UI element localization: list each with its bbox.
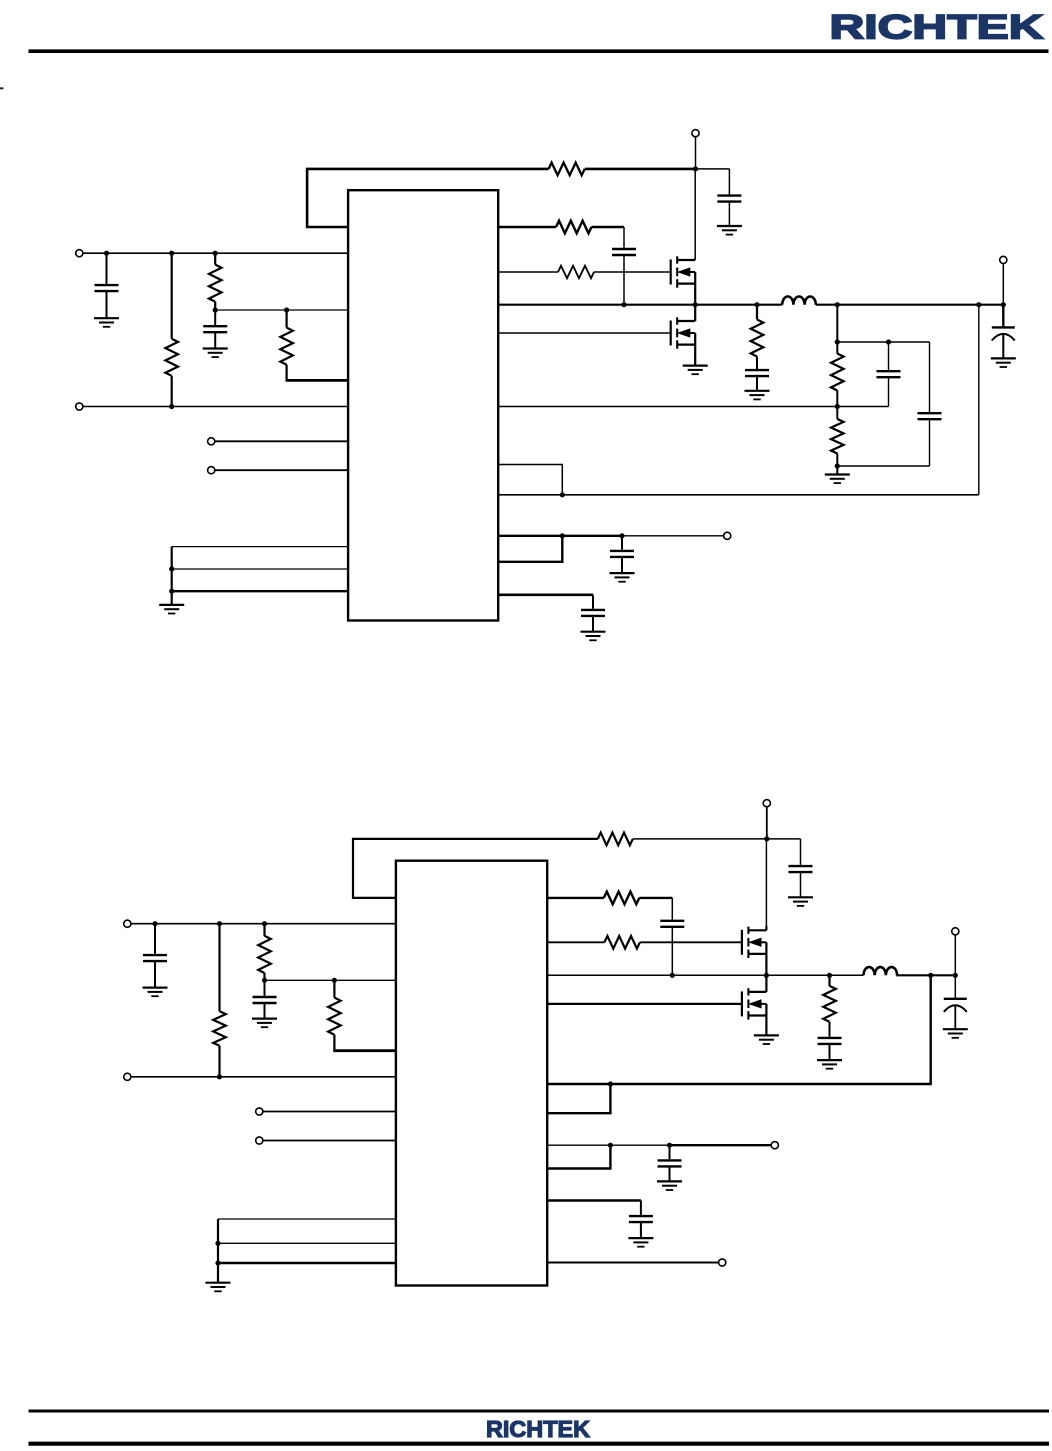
wire LGATE2 pin bbox=[547, 1003, 741, 1005]
capacitor C17 bbox=[658, 1145, 682, 1181]
terminal VCC2 out bbox=[771, 1142, 778, 1149]
node VIN2-R11 bbox=[262, 921, 267, 926]
wire LDO2 pin (thick) bbox=[547, 1201, 641, 1215]
wire node-R2 to pin bbox=[215, 309, 348, 311]
node VOUT1 bbox=[1001, 302, 1006, 307]
capacitor C3 bbox=[717, 196, 741, 226]
node boot2-SW bbox=[670, 973, 675, 978]
wire SW rail bbox=[498, 304, 1003, 306]
node SW-Q1 bbox=[693, 302, 698, 307]
ground C1 bbox=[94, 318, 119, 327]
wire VOS2 loop bbox=[547, 1084, 610, 1113]
header rule bbox=[29, 49, 1049, 53]
node VIN1-C bbox=[104, 251, 109, 256]
ground C15 bbox=[817, 1060, 842, 1069]
wire node-R11 to pin bbox=[265, 979, 396, 981]
op-amp U1 (controller IC) bbox=[348, 190, 498, 620]
node gnd b bbox=[169, 566, 174, 571]
wire VCC5 down bbox=[695, 137, 697, 169]
resistor R4 (top) bbox=[549, 163, 585, 176]
node FB bbox=[835, 404, 840, 409]
capacitor C1 (input) bbox=[95, 253, 119, 318]
ground C18 bbox=[628, 1238, 653, 1247]
terminal SS2 bbox=[719, 1259, 726, 1266]
resistor R3 bbox=[280, 310, 293, 380]
wire BOOT2 pin bbox=[547, 897, 604, 899]
resistor R1 bbox=[165, 253, 178, 406]
wire SS pin bbox=[547, 1262, 718, 1264]
capacitor C16 (output, polarized) bbox=[944, 975, 967, 1029]
terminal PG2 bbox=[256, 1137, 263, 1144]
capacitor C8 (output, polarized) bbox=[992, 305, 1015, 359]
wire UGATE2 pin bbox=[547, 941, 604, 943]
wire VCC5 2 to Q3 drain bbox=[765, 839, 767, 926]
footer rule top bbox=[29, 1410, 1050, 1413]
wire VOS line bbox=[498, 305, 979, 495]
resistor R11 bbox=[258, 924, 271, 981]
wire gnd2 pin c (thick) bbox=[218, 1262, 396, 1264]
resistor R8 (fb upper) bbox=[831, 342, 844, 407]
node VIN1-R1 bbox=[169, 251, 174, 256]
ground C3 bbox=[717, 226, 742, 235]
wire VOUT2 down bbox=[954, 935, 956, 976]
wire VIN1 rail bbox=[83, 252, 348, 254]
node gnd2 b bbox=[215, 1241, 220, 1246]
wire Q2 source down bbox=[694, 345, 696, 366]
ground C5 bbox=[745, 391, 770, 400]
node VOUT2 bbox=[953, 973, 958, 978]
ground C2 bbox=[203, 349, 228, 358]
node R2-C2 bbox=[213, 307, 218, 312]
wire VCC loop bbox=[498, 536, 562, 562]
ground C8 bbox=[991, 358, 1016, 367]
node VCC5 2 bbox=[764, 836, 769, 841]
wire LDO pin (thick) bbox=[498, 595, 593, 609]
wire UGATE pin bbox=[498, 271, 558, 273]
wire R6 to Q1 gate bbox=[594, 271, 670, 273]
wire VCC5 to C3 bbox=[696, 169, 730, 195]
transistor Q3 (high side NMOS) bbox=[742, 926, 767, 958]
capacitor C13 bbox=[789, 866, 813, 897]
node VCC2-C17 bbox=[667, 1143, 672, 1148]
node gnd2 c bbox=[215, 1260, 220, 1265]
wire VCC5 2 down bbox=[766, 807, 768, 839]
output terminal VOUT1 bbox=[1000, 256, 1007, 263]
node R3 tap bbox=[284, 307, 289, 312]
ground Q2 bbox=[683, 366, 708, 375]
wire Q3 source to SW2 bbox=[765, 954, 767, 975]
node L2 out bbox=[928, 973, 933, 978]
resistor R6 (ugate) bbox=[558, 266, 594, 279]
node VOS2 join bbox=[608, 1081, 613, 1086]
resistor R2 bbox=[209, 253, 222, 310]
inductor L1 bbox=[782, 297, 816, 305]
resistor R9 (fb lower) bbox=[831, 407, 844, 467]
node rail2-R10 bbox=[217, 1074, 222, 1079]
input terminal GND2 bbox=[124, 1073, 131, 1080]
inductor L2 bbox=[864, 967, 898, 975]
wire bottom rail bbox=[83, 406, 348, 408]
ground C13 bbox=[788, 897, 813, 906]
node SW2-R16 bbox=[827, 973, 832, 978]
ground C12 bbox=[252, 1019, 277, 1028]
wire Q4 source down bbox=[765, 1016, 767, 1036]
terminal EN2 bbox=[256, 1108, 263, 1115]
resistor R7 (snubber) bbox=[751, 305, 764, 369]
capacitor C5 (snubber) bbox=[745, 370, 769, 391]
wire top loop U1 bbox=[307, 169, 548, 227]
ground left cluster 2 bbox=[206, 1283, 231, 1292]
resistor R13 (top) bbox=[598, 833, 633, 846]
capacitor C14 (boot) bbox=[660, 921, 684, 976]
RICHTEK logo (header) bbox=[830, 9, 1044, 47]
svg-text:RICHTEK: RICHTEK bbox=[486, 1416, 590, 1442]
node SW-L1 out bbox=[835, 302, 840, 307]
left margin tick bbox=[0, 87, 3, 89]
capacitor C7 (comp) bbox=[837, 342, 941, 466]
output terminal VOUT2 bbox=[952, 928, 959, 935]
resistor R12 bbox=[328, 980, 341, 1050]
ground FB divider bbox=[825, 466, 850, 483]
wire PG2 bbox=[263, 1140, 396, 1142]
transistor Q4 (low side NMOS) bbox=[742, 975, 767, 1019]
input terminal VIN1 (top) bbox=[76, 250, 83, 257]
wire VOS stub bbox=[498, 465, 562, 495]
wire SW2 rail bbox=[547, 974, 955, 976]
footer rule bottom bbox=[29, 1442, 1050, 1446]
resistor R16 (snubber) bbox=[823, 975, 836, 1036]
node rail-R1 bbox=[169, 404, 174, 409]
wire VOUT1 down bbox=[1002, 263, 1004, 304]
op-amp U2 (controller IC) bbox=[396, 861, 547, 1286]
ground C9 bbox=[610, 573, 635, 582]
ground C17 bbox=[657, 1181, 682, 1190]
wire gnd2 pin b bbox=[218, 1242, 396, 1244]
wire Q1 source to SW bbox=[694, 284, 696, 305]
node VIN1-R2 bbox=[213, 251, 218, 256]
capacitor C9 bbox=[610, 536, 634, 573]
wire BOOT pin bbox=[498, 226, 556, 228]
ground C16 bbox=[943, 1029, 968, 1038]
terminal VCC1 out bbox=[724, 532, 731, 539]
ground left cluster bbox=[159, 605, 184, 614]
wire VOS2 line bbox=[547, 975, 931, 1084]
resistor R15 (ugate) bbox=[604, 936, 640, 949]
node gnd c bbox=[169, 589, 174, 594]
wire R15 to Q3 gate bbox=[640, 941, 742, 943]
node sense bbox=[976, 302, 981, 307]
wire VCC5 to Q1 drain bbox=[694, 169, 696, 260]
node VIN2-R10 bbox=[217, 921, 222, 926]
capacitor C10 bbox=[581, 610, 605, 632]
node SW-R7 bbox=[754, 302, 759, 307]
wire gnd pin a bbox=[172, 547, 348, 605]
resistor R10 bbox=[213, 924, 226, 1077]
node VCC-C9 bbox=[619, 533, 624, 538]
terminal VCC5 bbox=[692, 130, 699, 137]
terminal EN1 bbox=[208, 438, 215, 445]
transistor Q1 (high side NMOS) bbox=[671, 256, 696, 287]
terminal PG1 bbox=[208, 467, 215, 474]
wire VCC2 loop bbox=[547, 1145, 610, 1168]
wire top loop U2 bbox=[353, 839, 598, 898]
capacitor C4 (boot) bbox=[612, 249, 636, 305]
input terminal GND1 (bottom rail) bbox=[76, 403, 83, 410]
node Cff top bbox=[886, 339, 891, 344]
transistor Q2 (low side NMOS) bbox=[671, 305, 696, 349]
terminal VCC5 2 bbox=[763, 800, 770, 807]
capacitor C18 bbox=[629, 1216, 653, 1238]
node VOS join bbox=[560, 492, 565, 497]
wire R3 to pin (thick) bbox=[286, 379, 349, 382]
wire gnd2 pin a bbox=[218, 1219, 396, 1283]
wire R5 to C4 bbox=[592, 227, 625, 248]
ground C11 bbox=[143, 988, 168, 997]
wire gnd pin b bbox=[172, 568, 348, 570]
node VCC2 loop bbox=[608, 1143, 613, 1148]
node VIN2-C bbox=[152, 921, 157, 926]
wire VCC2 to terminal bbox=[670, 1144, 772, 1146]
resistor R14 (boot) bbox=[604, 892, 640, 905]
wire FB top across bbox=[837, 341, 929, 343]
capacitor C11 (input) bbox=[143, 924, 167, 988]
wire bottom rail 2 bbox=[131, 1076, 396, 1078]
node SW2-Q3 bbox=[764, 973, 769, 978]
wire L1 out down bbox=[836, 305, 838, 342]
wire EN2 bbox=[263, 1111, 396, 1113]
wire R4 to node bbox=[585, 168, 696, 171]
node R12 tap bbox=[332, 978, 337, 983]
node R11-C12 bbox=[262, 978, 267, 983]
wire VIN2 rail bbox=[131, 923, 396, 925]
wire VCC line (thick) bbox=[498, 535, 622, 537]
wire VCC5 2 to C13 bbox=[767, 839, 801, 865]
capacitor C15 (snubber) bbox=[818, 1038, 842, 1060]
wire R12 to pin (thick) bbox=[333, 1049, 396, 1052]
input terminal VIN2 bbox=[124, 920, 131, 927]
RICHTEK logo (footer) bbox=[486, 1416, 590, 1442]
wire LGATE pin bbox=[498, 332, 670, 334]
wire VCC2 line bbox=[547, 1144, 669, 1146]
ground Q4 bbox=[754, 1035, 779, 1044]
node boot-SW bbox=[621, 302, 626, 307]
wire FB line bbox=[498, 406, 888, 408]
node VCC loop bbox=[560, 533, 565, 538]
node FB bottom bbox=[835, 463, 840, 468]
svg-text:RICHTEK: RICHTEK bbox=[830, 9, 1044, 47]
wire gnd pin c (thick) bbox=[172, 590, 348, 592]
wire PG1 bbox=[215, 469, 348, 471]
capacitor C12 bbox=[253, 980, 277, 1018]
capacitor C2 bbox=[203, 310, 227, 348]
resistor R5 (boot) bbox=[556, 221, 592, 234]
wire VCC to terminal bbox=[622, 535, 724, 537]
wire EN1 bbox=[215, 440, 348, 442]
node FB top bbox=[835, 339, 840, 344]
wire R13 to node bbox=[633, 838, 767, 840]
ground C10 bbox=[581, 632, 606, 641]
node VCC5 bbox=[693, 166, 698, 171]
wire R14 to C14 bbox=[639, 898, 672, 920]
capacitor C6 (feedforward) bbox=[877, 342, 901, 407]
